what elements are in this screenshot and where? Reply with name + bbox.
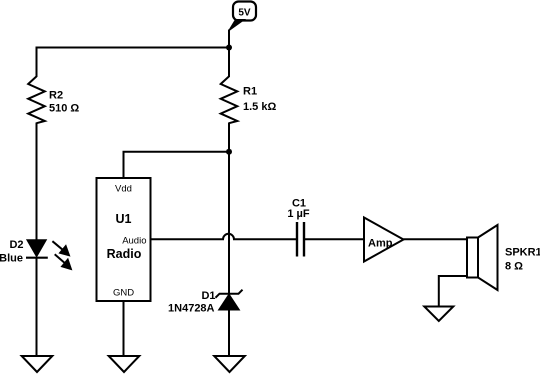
wire: R1 to D1 vertical rail: [228, 123, 230, 295]
wire: top rail horizontal: [36, 47, 230, 49]
svg-text:SPKR1: SPKR1: [505, 247, 540, 259]
svg-text:Blue: Blue: [0, 253, 23, 265]
wire: 5V flag to top rail: [228, 30, 230, 49]
wire: Vdd node to U1 Vdd pin: [124, 152, 230, 179]
junction: top rail node: [226, 45, 232, 51]
capacitor C1: [297, 222, 304, 257]
svg-text:1N4728A: 1N4728A: [168, 303, 215, 315]
svg-text:Audio: Audio: [122, 236, 146, 247]
ground (speaker): [424, 307, 453, 322]
svg-text:GND: GND: [113, 288, 134, 299]
junction: Vdd node: [226, 149, 232, 155]
zener diode D1: [216, 290, 243, 310]
wire: top rail to R1: [228, 48, 230, 78]
speaker SPKR1: [467, 225, 498, 290]
svg-text:D1: D1: [201, 290, 215, 302]
svg-text:D2: D2: [9, 239, 23, 251]
LED light arrows: [52, 241, 70, 269]
svg-text:Radio: Radio: [107, 247, 142, 261]
wire: Amp to SPKR1: [404, 238, 468, 240]
svg-text:1.5 kΩ: 1.5 kΩ: [243, 101, 276, 113]
wire: D1 to ground: [228, 310, 230, 356]
ground (left): [22, 356, 53, 372]
resistor R1: [221, 76, 238, 123]
wire: SPKR1 return to ground: [439, 276, 467, 307]
svg-text:Vdd: Vdd: [115, 184, 132, 195]
wire: U1 audio out to C1 (hops over rail): [151, 234, 297, 239]
svg-text:510 Ω: 510 Ω: [49, 103, 79, 115]
amplifier Amp: [364, 218, 404, 262]
wire: top rail to R2: [36, 47, 38, 78]
svg-text:U1: U1: [116, 212, 132, 226]
svg-text:R2: R2: [49, 90, 63, 102]
svg-text:8 Ω: 8 Ω: [505, 261, 523, 273]
svg-text:R1: R1: [243, 86, 257, 98]
ground (D1): [214, 356, 245, 372]
resistor R2: [28, 76, 45, 123]
svg-text:Amp: Amp: [368, 237, 393, 249]
wire: U1 GND to ground: [123, 301, 125, 356]
ground (U1): [109, 356, 140, 372]
IC U1 Radio: [97, 178, 151, 301]
wire: C1 to Amp: [304, 238, 364, 240]
wire: D2 to ground: [36, 258, 38, 356]
wire: R2 to D2: [36, 123, 38, 241]
power flag 5V: [229, 2, 257, 32]
svg-text:5V: 5V: [238, 8, 251, 19]
svg-text:1 µF: 1 µF: [287, 208, 310, 220]
LED D2: [26, 240, 48, 258]
